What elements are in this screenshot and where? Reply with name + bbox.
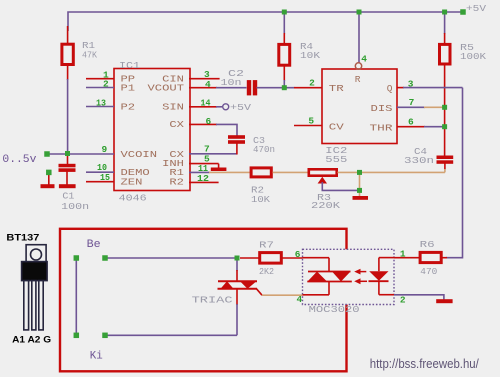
svg-text:10K: 10K [251,194,270,205]
wire MOC pin1 to R6 [394,257,419,259]
wire pin 6 CX net to C3 [189,123,217,125]
wire R3 wiper to junction [322,182,359,190]
svg-text:470: 470 [420,266,437,277]
svg-text:SIN: SIN [162,101,184,112]
node input pad 0..5v [44,151,50,157]
svg-text:0..5v: 0..5v [2,154,36,166]
node pad Be right [102,255,108,261]
node open pin circle +5V [223,104,229,110]
capacitor C2 [247,80,251,95]
resistor R3 potentiometer [309,169,337,175]
svg-text:+5V: +5V [230,102,251,113]
svg-text:R7: R7 [259,240,274,251]
wire junction down to triac [236,258,238,271]
wire pin 13 P2 net [86,106,114,108]
svg-text:P2: P2 [121,101,136,112]
svg-text:DIS: DIS [371,103,393,114]
wire Ki terminal [105,334,237,336]
resistor R7 [240,257,259,259]
svg-text:4: 4 [361,53,367,64]
ground MOC pin2 [436,299,452,303]
svg-text:R: R [355,74,361,85]
node pad Be left [74,255,80,261]
svg-text:220K: 220K [311,200,340,211]
wire triac MT1 down [236,289,238,305]
svg-text:VCOUT: VCOUT [148,82,185,93]
transistor Q1 TRIAC symbol [218,280,257,282]
svg-text:555: 555 [325,154,347,165]
wire pin 6 THR net [397,126,425,128]
svg-text:7: 7 [409,97,415,108]
wire triac gate [257,289,263,295]
node junction DIS/R5 [442,105,447,110]
svg-text:TR: TR [329,83,344,94]
ground C1 [59,184,76,188]
svg-text:100n: 100n [61,201,89,212]
svg-text:+5V: +5V [466,3,486,14]
svg-text:VCOIN: VCOIN [121,149,158,160]
MOC light arrows [354,269,360,275]
resistor R2 [251,168,271,177]
svg-text:THR: THR [370,123,393,134]
ground input [41,184,55,188]
svg-text:9: 9 [102,144,108,155]
MOC internal triac [308,271,351,273]
wire pin 12 R2 stub [189,181,219,183]
resistor R4 [283,12,285,34]
svg-text:Be: Be [87,239,101,251]
wire pin 14 SIN net [189,106,217,108]
wire pin 11 R1 net to R2 [189,171,210,173]
wire pin 9 VCOIN net from input [47,153,114,155]
svg-text:3: 3 [408,79,414,90]
border power section box [60,229,347,371]
capacitor C4 [437,156,454,160]
op-amp U2: IC2 555 box [322,69,397,144]
wire pin 2 P1 net [86,87,114,89]
svg-text:2K2: 2K2 [259,266,274,277]
svg-text:TRIAC: TRIAC [192,294,233,305]
svg-text:12: 12 [197,173,209,184]
ground INH [211,168,227,172]
svg-text:ZEN: ZEN [121,177,143,188]
resistor R6 [420,252,441,262]
svg-text:CX: CX [169,119,184,130]
wire R2 to R3 [273,171,309,173]
svg-text:4046: 4046 [119,193,147,204]
svg-text:2: 2 [309,78,315,89]
svg-text:100K: 100K [460,51,486,62]
svg-text:MOC3020: MOC3020 [309,304,360,315]
node junction pin4 rail [357,10,362,15]
wire pin 7 CX net to C3 bottom [189,153,237,155]
svg-text:BT137: BT137 [6,232,39,243]
svg-text:Q: Q [387,83,393,94]
svg-text:14: 14 [201,98,211,109]
node junction R4/C2/TR [282,85,287,90]
svg-text:R2: R2 [169,177,184,188]
wire pin 1 PP stub [86,78,114,80]
node junction tan net [357,170,362,175]
svg-text:CV: CV [329,122,344,133]
node +5V supply pad [460,9,466,15]
svg-text:6: 6 [206,116,212,127]
svg-text:6: 6 [295,249,301,260]
wire pin 15 ZEN stub [86,181,114,183]
svg-text:330n: 330n [404,155,434,166]
wire C2 right to TR [257,87,295,89]
wire R3 right / C4 bottom tan net [338,171,445,173]
wire pin 4 VCOUT net to C2 [189,87,217,89]
svg-text:P1: P1 [121,82,136,93]
svg-text:13: 13 [96,97,106,108]
diode LED in MOC [369,271,388,281]
wire pin 3 CIN stub [189,78,220,80]
svg-text:R6: R6 [420,239,435,250]
wire gnd pad lead [48,173,50,185]
wire pin 5 INH to ground [189,163,219,165]
op-amp U1: IC1 4046 box [114,69,190,191]
wire MOC pin2 to ground [394,295,444,300]
optocoupler U3 MOC3020 dashed box [303,249,395,304]
wire pin 7 DIS net [397,106,425,108]
svg-text:5: 5 [308,116,314,127]
wire Be terminal [105,257,237,259]
wire pin 2 TR stub [294,87,322,89]
node junction gate/R7/Be [235,256,240,261]
capacitor C3 [228,135,245,139]
svg-text:10K: 10K [300,50,320,61]
ground R3 [353,196,369,200]
svg-text:47K: 47K [82,50,97,61]
node pad Ki right [102,333,108,339]
svg-text:http://bss.freeweb.hu/: http://bss.freeweb.hu/ [370,357,479,371]
wire connector left column [75,258,77,335]
node junction R1/C1/VCOIN [65,151,70,156]
wire pin 5 CV stub [294,125,322,127]
node junction wiper gnd [357,188,362,193]
svg-text:2: 2 [103,79,109,90]
wire pin 10 DEMO stub [86,171,114,173]
wire R1 bottom to VCOIN net [67,79,69,154]
wire MOC internal pin4 [328,281,330,295]
node junction R4 top rail [282,10,287,15]
svg-text:10n: 10n [221,77,242,88]
wire pin 3 Q net [397,87,404,89]
wire MOC internal pin6 [303,257,330,259]
svg-text:4: 4 [297,294,303,305]
transistor BT137 package drawing [22,245,47,330]
node inversion bubble R [355,63,361,69]
svg-text:IC1: IC1 [119,60,140,71]
svg-text:2: 2 [400,295,406,306]
svg-text:470n: 470n [253,144,275,155]
wire +5V rail [68,12,463,31]
resistor R1 [67,26,69,45]
svg-text:A1 A2 G: A1 A2 G [12,335,51,346]
svg-text:15: 15 [100,172,110,183]
node junction THR/R5/C4 [442,124,447,129]
wire junction to ground [359,190,361,196]
node pad Ki left [74,333,80,339]
svg-text:4: 4 [205,79,211,90]
svg-text:Ki: Ki [90,351,103,363]
node input gnd pad [46,170,52,176]
svg-text:C1: C1 [62,190,74,201]
node junction R5 top rail [442,10,447,15]
resistor R5 [444,12,446,34]
capacitor C1 [67,154,69,165]
wire pin 4 R net from rail [358,12,360,64]
svg-text:6: 6 [408,117,414,128]
